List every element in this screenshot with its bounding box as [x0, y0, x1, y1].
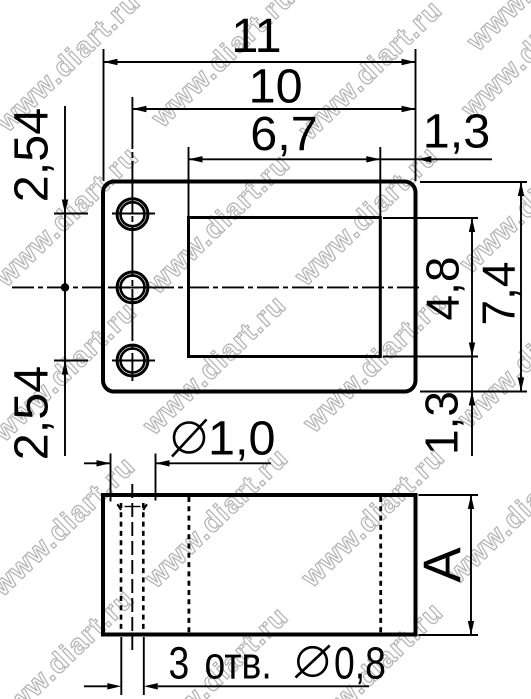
svg-text:1,0: 1,0 [208, 412, 275, 466]
svg-text:www.diart.ru: www.diart.ru [0, 582, 140, 699]
svg-text:4,8: 4,8 [417, 257, 469, 321]
svg-text:6,7: 6,7 [250, 107, 317, 161]
svg-text:1,3: 1,3 [416, 391, 468, 455]
svg-text:2,54: 2,54 [5, 108, 59, 202]
svg-text:0,8: 0,8 [334, 637, 386, 688]
svg-text:www.diart.ru: www.diart.ru [140, 147, 296, 300]
svg-text:отв.: отв. [205, 637, 272, 688]
svg-text:11: 11 [231, 9, 281, 63]
svg-text:A: A [413, 547, 472, 583]
svg-text:7,4: 7,4 [473, 262, 525, 326]
svg-text:2,54: 2,54 [5, 366, 59, 460]
svg-text:10: 10 [249, 60, 303, 114]
svg-text:3: 3 [169, 637, 190, 688]
svg-text:1,3: 1,3 [423, 105, 490, 159]
